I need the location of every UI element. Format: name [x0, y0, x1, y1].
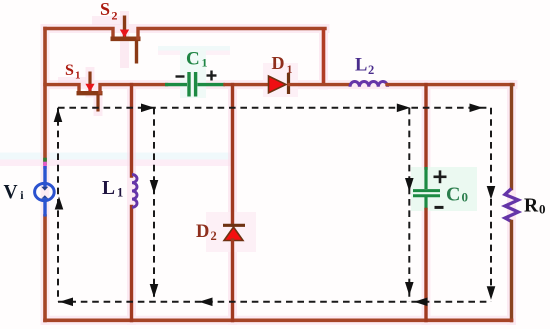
- inductor L1: [132, 175, 137, 208]
- label R0: [524, 196, 546, 217]
- svg-text:1: 1: [75, 70, 81, 82]
- switch S1: [77, 72, 167, 112]
- label D1: [272, 53, 293, 76]
- svg-text:D: D: [272, 53, 285, 73]
- wire: middle rail between C1 and D1: [225, 83, 269, 86]
- svg-text:D: D: [196, 222, 209, 242]
- svg-text:2: 2: [368, 63, 374, 77]
- svg-text:L: L: [102, 178, 115, 199]
- wire: top-right descent to middle rail: [322, 29, 326, 87]
- svg-text:S: S: [65, 62, 74, 79]
- dashed current loop: left vertical: [57, 108, 59, 302]
- wire: C0 branch upper: [424, 85, 427, 168]
- dashed current loop: vertical at C0: [408, 108, 410, 302]
- svg-text:1: 1: [117, 186, 123, 200]
- wire: right vertical rail upper: [510, 85, 513, 189]
- svg-text:S: S: [100, 0, 110, 19]
- arrow left on bottom dashed (middle): [199, 298, 213, 307]
- arrow down on C0 dashed: [405, 178, 414, 192]
- arrow down on right dashed: [487, 186, 496, 200]
- arrow down on C0 dashed (lower): [405, 282, 414, 296]
- arrow down on right dashed (lower): [487, 286, 496, 300]
- svg-text:R: R: [524, 196, 539, 217]
- label D2: [196, 222, 217, 243]
- diode D1: [269, 73, 289, 94]
- label C1 polarity marks: [176, 71, 217, 81]
- label L2: [355, 56, 374, 78]
- arrow right on top dashed (before right corner): [470, 104, 484, 113]
- arrow down on L1 dashed (upper): [150, 180, 159, 194]
- svg-text:C: C: [186, 49, 200, 70]
- dashed current loop: right vertical: [490, 108, 492, 302]
- label Vi: [4, 182, 25, 203]
- wire: right vertical rail lower: [510, 222, 513, 321]
- wire: middle rail between D1 and L2: [289, 83, 350, 86]
- inductor L2: [350, 82, 388, 87]
- svg-text:1: 1: [202, 56, 208, 70]
- label C1: [186, 49, 208, 70]
- arrow up on left dashed (mid, near Vi): [55, 197, 64, 210]
- svg-text:0: 0: [462, 190, 469, 205]
- dashed current loop: top horizontal: [58, 107, 491, 109]
- arrow left on bottom dashed (left): [60, 298, 74, 307]
- wire: D2 branch upper: [231, 85, 234, 225]
- svg-text:2: 2: [112, 9, 118, 23]
- wire: middle rail right segment: [387, 83, 513, 86]
- resistor R0: [505, 189, 518, 222]
- svg-text:2: 2: [211, 229, 217, 243]
- capacitor C1: [165, 72, 225, 97]
- wire: C0 branch lower: [424, 210, 427, 321]
- diode D2: [223, 225, 245, 240]
- svg-text:V: V: [4, 182, 18, 203]
- arrow right on top dashed (before C0 loop): [397, 104, 411, 113]
- source Vi: [35, 166, 55, 217]
- label C0 polarity marks: [434, 170, 447, 207]
- arrow up on left dashed (top): [54, 109, 63, 123]
- switch S2: [111, 16, 326, 64]
- svg-text:i: i: [20, 188, 24, 202]
- dashed current loop: bottom horizontal: [58, 301, 491, 303]
- dashed current loop: vertical at L1: [153, 108, 155, 302]
- wire: left vertical rail: [43, 29, 47, 321]
- arrow down on L1 dashed (lower): [150, 284, 159, 298]
- svg-text:C: C: [446, 184, 460, 206]
- svg-text:0: 0: [539, 202, 546, 217]
- wire: top rail left segment: [45, 29, 113, 38]
- wire: bottom rail: [45, 318, 512, 322]
- svg-text:1: 1: [287, 62, 293, 76]
- arrow right on top dashed (before L1 loop): [141, 104, 155, 113]
- arrow left on bottom dashed (right): [414, 298, 428, 307]
- capacitor C0: [413, 167, 440, 210]
- label S1: [65, 62, 81, 82]
- label S2: [100, 0, 118, 23]
- wire: L1 branch: [130, 85, 133, 176]
- wire: D2 branch lower: [231, 240, 234, 321]
- wire: middle rail left segment: [45, 85, 79, 92]
- label C0: [446, 184, 468, 206]
- label L1: [102, 178, 123, 200]
- svg-text:L: L: [355, 56, 367, 76]
